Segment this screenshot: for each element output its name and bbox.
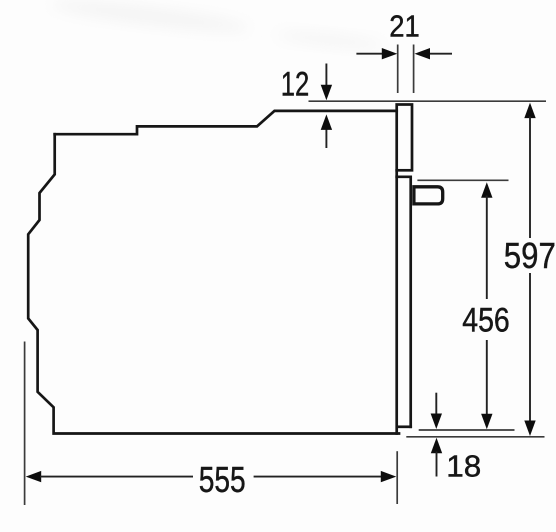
- extension line: left of body (for 555): [24, 342, 26, 506]
- extension line: right of frame (for 21): [413, 45, 415, 94]
- dimension 21: left arrow: [356, 53, 383, 55]
- dimension 21: right arrow: [429, 53, 452, 55]
- dimension 12: down arrow: [325, 64, 327, 87]
- svg-text:597: 597: [504, 235, 556, 276]
- dimension 555: left arrow: [26, 471, 42, 482]
- dimension 555: right segment and right arrow: [254, 476, 382, 478]
- svg-text:18: 18: [446, 449, 481, 484]
- svg-text:555: 555: [199, 459, 246, 500]
- extension line: right of door (for 555): [396, 451, 398, 504]
- dimension 456: down arrow at bottom: [481, 414, 492, 430]
- extension line: top of frame (for 12 and 597): [309, 100, 547, 102]
- extension line: bottom of body (for 597 and 18): [406, 436, 544, 438]
- extension line: bottom of door (for 456 and 18): [419, 429, 515, 431]
- svg-text:21: 21: [389, 8, 420, 43]
- svg-text:456: 456: [462, 302, 510, 340]
- svg-text:12: 12: [281, 66, 310, 104]
- dimension 456: vertical line with up arrow at top: [481, 182, 492, 198]
- dimension 18: down arrow above: [435, 393, 437, 415]
- scan smudge top-left: [50, 0, 251, 37]
- front frame (top trim, 21 wide): [397, 105, 412, 171]
- scan smudge top-middle: [275, 27, 386, 52]
- dimension 597: vertical line with up arrow at top: [524, 103, 535, 119]
- door front below frame: [395, 170, 398, 433]
- oven body top edge (stepped profile): [55, 111, 397, 134]
- mounting tab (hook): [414, 187, 443, 204]
- extension line: left of frame (for 21): [397, 45, 399, 94]
- dimension 12: up arrow: [325, 128, 327, 148]
- oven body left and bottom edge: [28, 134, 399, 433]
- extension line: top of door opening (for 456): [417, 179, 508, 181]
- dimension 18: up arrow below: [431, 438, 442, 454]
- dimension 597: down arrow at bottom: [524, 421, 535, 437]
